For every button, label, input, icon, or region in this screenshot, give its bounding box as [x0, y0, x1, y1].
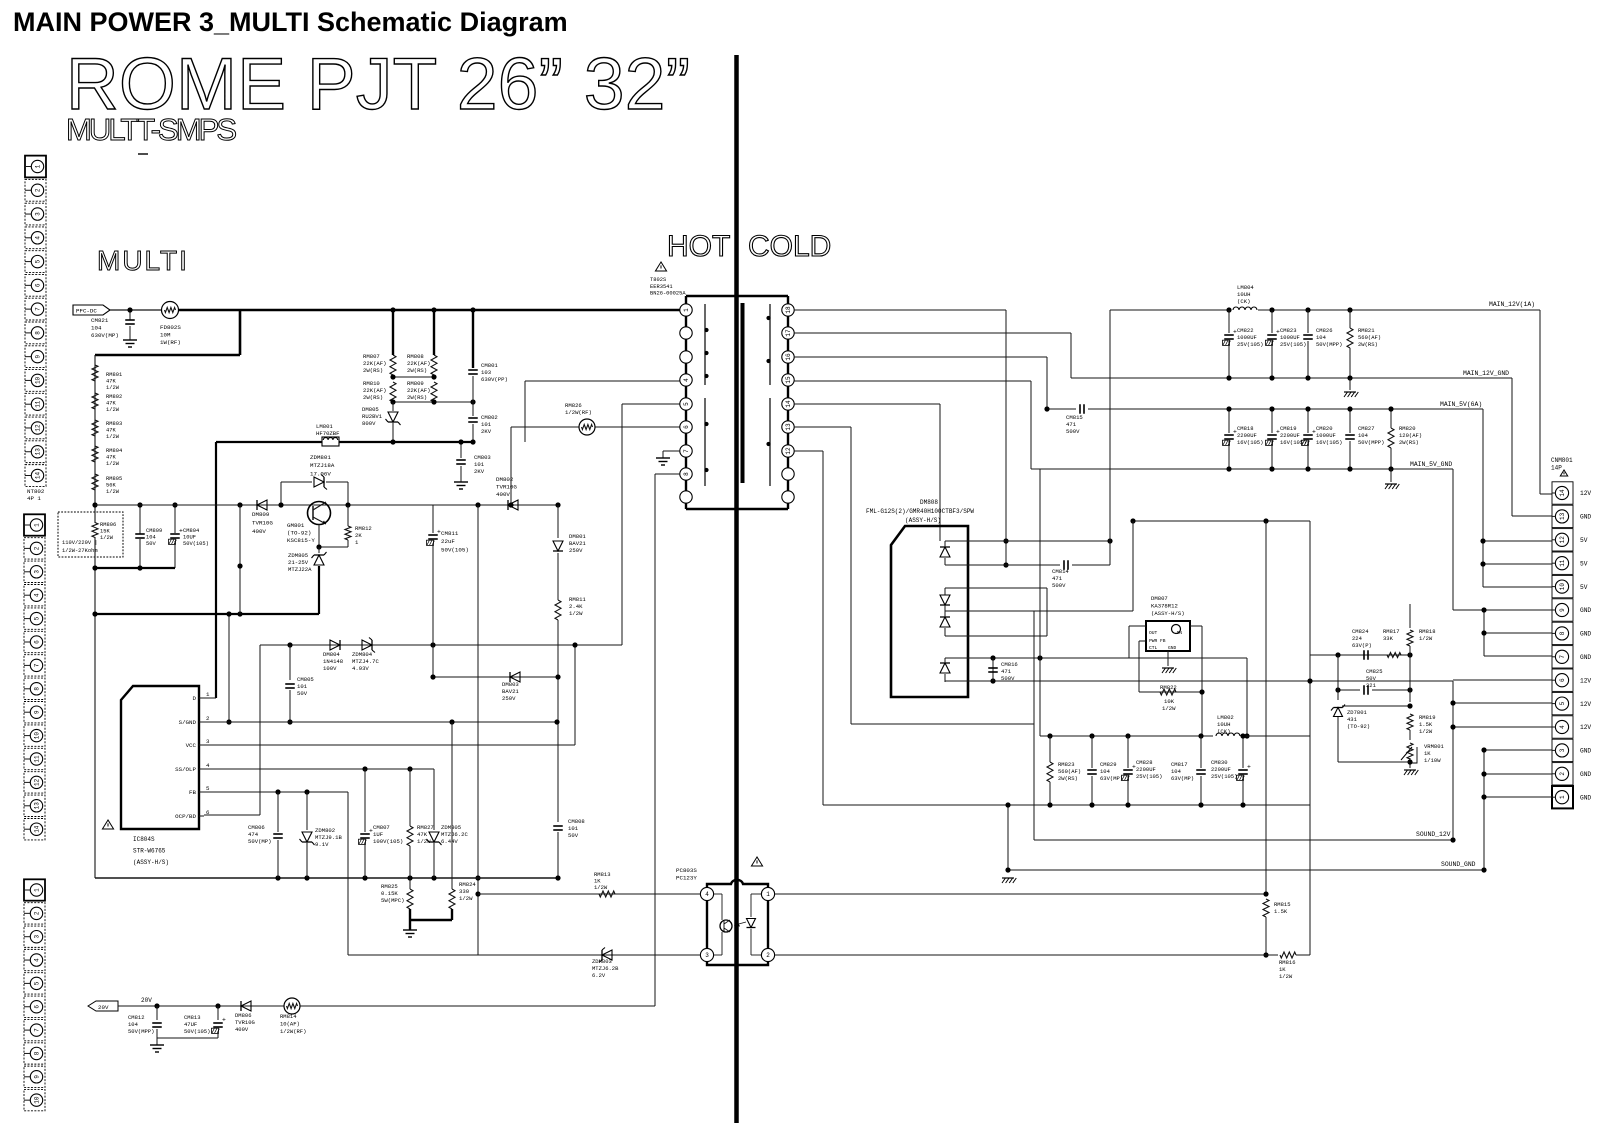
- svg-text:10: 10: [35, 376, 42, 384]
- capacitor CM821: [129, 310, 131, 320]
- capacitor CM808: [553, 825, 563, 827]
- svg-text:101: 101: [297, 683, 308, 690]
- inductor LM804: [1233, 307, 1257, 310]
- svg-text:12: 12: [785, 447, 792, 455]
- svg-text:101: 101: [474, 461, 485, 468]
- svg-text:3: 3: [34, 935, 41, 939]
- svg-text:14: 14: [785, 400, 792, 408]
- DM807 pin stubs: [1129, 625, 1146, 627]
- svg-text:SOUND_12V: SOUND_12V: [1416, 831, 1451, 838]
- ground below CM821: [123, 339, 137, 341]
- DM808 diode 2/3 snubber loop: [945, 587, 1047, 589]
- wire SOUND_GND with ground: [1008, 869, 1484, 871]
- svg-text:1.5K: 1.5K: [1419, 721, 1433, 728]
- svg-text:VCC: VCC: [186, 742, 197, 749]
- svg-text:MAIN POWER 3_MULTI Schematic D: MAIN POWER 3_MULTI Schematic Diagram: [13, 7, 568, 37]
- svg-text:1: 1: [34, 523, 41, 527]
- wire x1266 down to opto: [1265, 521, 1267, 893]
- svg-text:22uF: 22uF: [441, 538, 455, 545]
- connector column B NT802 (14 pins): [24, 514, 45, 535]
- shunt regulator ZD7801: [1334, 708, 1343, 717]
- wire y677 with diode DM803: [433, 676, 558, 678]
- wires to 12V pins 6-4: [1452, 681, 1454, 840]
- svg-text:2200UF: 2200UF: [1237, 432, 1257, 439]
- capacitor CM804: [174, 505, 176, 533]
- svg-text:1/2W: 1/2W: [594, 884, 608, 891]
- svg-text:13: 13: [35, 448, 42, 456]
- svg-text:13: 13: [785, 423, 792, 431]
- svg-text:4: 4: [705, 891, 709, 898]
- wire y614 thick: [95, 613, 319, 615]
- wire x1034 sound 12v source: [1033, 611, 1035, 840]
- zener DM805: [392, 402, 394, 411]
- svg-text:9: 9: [1559, 608, 1566, 612]
- svg-text:20V: 20V: [98, 1004, 109, 1011]
- svg-text:CM809: CM809: [146, 528, 162, 534]
- svg-text:630V(MP): 630V(MP): [91, 332, 119, 339]
- wire FB y792: [204, 791, 348, 793]
- svg-text:DM808: DM808: [920, 499, 938, 506]
- wire x1202 DM807 IN feed: [1201, 626, 1203, 736]
- svg-text:CM821: CM821: [91, 317, 109, 324]
- wire SOUND_12V: [1034, 839, 1453, 841]
- svg-text:4: 4: [206, 762, 210, 769]
- transformer left winding bars: [704, 304, 706, 385]
- svg-text:HOT: HOT: [667, 230, 730, 263]
- svg-text:10UF: 10UF: [183, 535, 196, 541]
- svg-text:17.06V: 17.06V: [310, 470, 331, 477]
- svg-text:MULTI: MULTI: [97, 245, 189, 276]
- wire x1129 DM807 OUT: [1128, 626, 1130, 658]
- zener ZDM805 6.44V: [433, 769, 435, 830]
- fusible resistor RM814: [284, 998, 300, 1014]
- svg-text:2: 2: [35, 188, 42, 192]
- svg-text:2: 2: [34, 546, 41, 550]
- svg-text:10: 10: [34, 732, 41, 740]
- resistor RM802: [92, 393, 98, 409]
- svg-text:104: 104: [1358, 432, 1369, 439]
- svg-text:CM827: CM827: [1358, 425, 1375, 432]
- svg-text:7: 7: [34, 1028, 41, 1032]
- wire y568 thick join: [95, 567, 175, 569]
- wire pin1 right: [775, 893, 1266, 895]
- wire x1247 to LM802 bus: [1246, 658, 1248, 736]
- svg-text:47K: 47K: [106, 428, 116, 434]
- svg-text:56K: 56K: [106, 483, 116, 489]
- svg-text:BAV21: BAV21: [569, 540, 586, 547]
- svg-text:224: 224: [1352, 635, 1363, 642]
- svg-text:RM801: RM801: [106, 372, 122, 378]
- capacitor CM806: [277, 792, 279, 832]
- capacitor CM828: [1127, 736, 1129, 768]
- svg-text:560(AF): 560(AF): [1358, 334, 1381, 341]
- resistor RM812: [347, 505, 349, 526]
- capacitor CM830: [1242, 736, 1244, 768]
- capacitor CM809: [139, 505, 141, 534]
- svg-text:4: 4: [1559, 725, 1566, 729]
- svg-text:1/2W: 1/2W: [459, 895, 473, 902]
- svg-text:CM825: CM825: [1366, 668, 1383, 675]
- long vertical x478: [477, 505, 479, 955]
- svg-text:50V: 50V: [1366, 675, 1377, 682]
- svg-text:50V(MP): 50V(MP): [248, 838, 272, 845]
- svg-text:RM821: RM821: [1358, 327, 1375, 334]
- svg-text:RM823: RM823: [1058, 761, 1075, 768]
- svg-text:1/2W: 1/2W: [106, 385, 120, 391]
- main bus y505: [95, 504, 560, 506]
- svg-text:50V(105): 50V(105): [184, 1028, 210, 1035]
- svg-text:1.5K: 1.5K: [1274, 908, 1288, 915]
- capacitor CM827: [1349, 409, 1351, 433]
- resistor RM805: [92, 474, 98, 490]
- transformer right pins: [782, 304, 794, 316]
- svg-text:431: 431: [1347, 716, 1358, 723]
- svg-text:104: 104: [146, 535, 156, 541]
- svg-text:S/GND: S/GND: [179, 719, 197, 726]
- svg-text:1K: 1K: [1424, 750, 1431, 757]
- svg-text:16V(105): 16V(105): [1237, 439, 1263, 446]
- svg-text:RM816: RM816: [1279, 959, 1296, 966]
- svg-text:GND: GND: [1580, 748, 1591, 755]
- svg-text:50V(105): 50V(105): [441, 546, 469, 553]
- wire x1310 12V rail: [1309, 521, 1311, 955]
- svg-text:630V(PP): 630V(PP): [481, 376, 508, 383]
- svg-text:GND: GND: [1580, 654, 1591, 661]
- svg-text:9: 9: [35, 354, 42, 358]
- svg-text:PC123Y: PC123Y: [676, 875, 697, 882]
- svg-text:6: 6: [35, 283, 42, 287]
- diode DM806: [241, 1001, 251, 1011]
- HOT/COLD divider line: [734, 55, 739, 1123]
- svg-text:1000UF: 1000UF: [1237, 334, 1257, 341]
- wire pin14 down x940: [794, 403, 940, 405]
- svg-text:2W(RS): 2W(RS): [1399, 439, 1419, 446]
- svg-text:ZDM801: ZDM801: [310, 454, 331, 461]
- svg-text:T802S: T802S: [650, 277, 666, 283]
- wire top bus y310: [110, 309, 170, 311]
- svg-text:KSC815-Y: KSC815-Y: [287, 537, 315, 544]
- svg-text:ZDM804: ZDM804: [352, 651, 373, 658]
- svg-text:250V: 250V: [569, 547, 583, 554]
- capacitor CM813: [217, 1006, 219, 1020]
- wire pin16 to 5V: [794, 356, 1047, 358]
- svg-text:10UH: 10UH: [1237, 291, 1250, 298]
- svg-text:CM820: CM820: [1316, 425, 1333, 432]
- svg-text:MTZJ6.2C: MTZJ6.2C: [441, 831, 468, 838]
- diode DM801: [557, 505, 559, 538]
- resistor RM806 with dashed select box: [58, 512, 123, 557]
- svg-text:104: 104: [1171, 768, 1182, 775]
- wire MAIN_5V_GND y469: [1031, 468, 1453, 470]
- svg-text:11: 11: [1559, 559, 1566, 567]
- svg-text:CM819: CM819: [1280, 425, 1297, 432]
- wire x229 to S/GND: [228, 614, 230, 722]
- diode DM804: [330, 640, 340, 650]
- DM808 diode 3: [940, 617, 950, 627]
- svg-text:500V: 500V: [1052, 582, 1066, 589]
- resistor RM824: [451, 722, 453, 889]
- svg-text:8: 8: [1559, 631, 1566, 635]
- svg-text:400V: 400V: [496, 491, 510, 498]
- svg-text:GND: GND: [1168, 645, 1177, 651]
- wire pin15 to 5V gnd: [794, 380, 1031, 382]
- resistor chain RM801-RM805 vertical wire: [94, 355, 96, 505]
- svg-text:DM807: DM807: [1151, 595, 1168, 602]
- connector column A (14 pins): [25, 156, 46, 178]
- svg-text:8: 8: [34, 687, 41, 691]
- capacitor CM801: [468, 369, 478, 371]
- svg-text:6: 6: [683, 425, 690, 429]
- svg-text:RM805: RM805: [106, 476, 122, 482]
- transformer right winding bars: [769, 304, 771, 385]
- svg-text:47K: 47K: [106, 401, 116, 407]
- svg-text:RM827: RM827: [417, 824, 434, 831]
- svg-text:1/2W: 1/2W: [1419, 728, 1433, 735]
- PC803S pins: [700, 887, 713, 900]
- wire stubs from top bus: [392, 310, 394, 355]
- svg-text:47K: 47K: [106, 455, 116, 461]
- svg-text:4: 4: [34, 958, 41, 962]
- svg-text:GND: GND: [1580, 514, 1591, 521]
- wire y645 VCC rail: [260, 644, 622, 646]
- svg-text:10: 10: [34, 1096, 41, 1104]
- svg-text:1/2W: 1/2W: [1279, 973, 1293, 980]
- svg-text:2K: 2K: [355, 532, 362, 539]
- svg-text:471: 471: [1001, 668, 1012, 675]
- svg-text:63V(MP): 63V(MP): [1171, 775, 1194, 782]
- svg-text:(CK): (CK): [1217, 728, 1230, 735]
- svg-text:47UF: 47UF: [184, 1021, 197, 1028]
- svg-text:COLD: COLD: [748, 230, 831, 263]
- svg-text:RM812: RM812: [355, 525, 372, 532]
- svg-text:RM820: RM820: [1399, 425, 1416, 432]
- wire SS/OLP y769: [204, 768, 434, 770]
- svg-text:CTL: CTL: [1149, 645, 1158, 651]
- wire pin13 to x851: [794, 426, 851, 428]
- resistor RM804: [92, 446, 98, 462]
- capacitor CM817: [1200, 736, 1202, 768]
- svg-text:25V(105): 25V(105): [1136, 773, 1162, 780]
- svg-text:12V: 12V: [1580, 677, 1591, 684]
- svg-text:10UH: 10UH: [1217, 721, 1230, 728]
- svg-text:MAIN_12V(1A): MAIN_12V(1A): [1489, 301, 1535, 308]
- svg-text:5: 5: [34, 981, 41, 985]
- wire y706: [1342, 705, 1410, 707]
- svg-text:1: 1: [683, 308, 690, 312]
- DM808 diode 1: [940, 547, 950, 557]
- svg-text:1/2W(RF): 1/2W(RF): [565, 409, 592, 416]
- svg-text:DM805: DM805: [362, 406, 379, 413]
- capacitor CM826: [1307, 310, 1309, 333]
- svg-text:5: 5: [34, 616, 41, 620]
- svg-text:1/2W: 1/2W: [106, 461, 120, 467]
- svg-text:IN: IN: [1176, 630, 1182, 636]
- zener ZDM801 loop: [280, 482, 282, 505]
- capacitor CM819: [1271, 409, 1273, 433]
- capacitor CM803 with ground: [460, 442, 462, 458]
- svg-text:FB: FB: [189, 789, 196, 796]
- svg-text:RM825: RM825: [381, 883, 398, 890]
- svg-text:VRM801: VRM801: [1424, 743, 1445, 750]
- svg-text:2200UF: 2200UF: [1280, 432, 1300, 439]
- svg-text:13: 13: [34, 802, 41, 810]
- transformer T802S warning label: [655, 262, 666, 271]
- svg-text:101: 101: [568, 825, 579, 832]
- capacitor CM811: [432, 505, 434, 533]
- capacitor CM807: [364, 769, 366, 832]
- svg-text:2: 2: [206, 715, 210, 722]
- resistor RM819: [1409, 702, 1411, 712]
- svg-text:103: 103: [481, 369, 491, 376]
- zener ZDM803 wire to pin3: [348, 954, 700, 956]
- svg-text:DM806: DM806: [235, 1012, 252, 1019]
- svg-text:22K(AF): 22K(AF): [363, 387, 387, 394]
- svg-text:DM802: DM802: [496, 476, 514, 483]
- svg-text:CM808: CM808: [568, 818, 585, 825]
- svg-text:(TO-92): (TO-92): [1347, 723, 1370, 730]
- svg-text:47K: 47K: [417, 831, 428, 838]
- svg-text:120(AF): 120(AF): [1399, 432, 1422, 439]
- wire S/GND y722: [204, 721, 557, 723]
- svg-text:14P: 14P: [1551, 465, 1562, 472]
- diode DM802: [508, 500, 518, 510]
- svg-text:500V: 500V: [1066, 428, 1080, 435]
- node PFC-DC flag: [73, 305, 110, 315]
- svg-text:14: 14: [34, 825, 41, 833]
- svg-text:EER3541: EER3541: [650, 284, 673, 290]
- svg-text:CM829: CM829: [1100, 761, 1117, 768]
- svg-text:DM809: DM809: [252, 511, 270, 518]
- ground on 12V gnd: [1349, 378, 1351, 390]
- svg-text:1: 1: [766, 891, 770, 898]
- resistor RM827: [409, 769, 411, 826]
- svg-text:500V: 500V: [1001, 675, 1015, 682]
- capacitor CM823: [1271, 310, 1273, 333]
- svg-text:RM807: RM807: [363, 353, 380, 360]
- resistor RM815: [1263, 899, 1269, 917]
- svg-text:221: 221: [1366, 682, 1377, 689]
- svg-text:ZD7801: ZD7801: [1347, 709, 1368, 716]
- svg-text:MAIN_12V_GND: MAIN_12V_GND: [1463, 370, 1509, 377]
- svg-text:5: 5: [1559, 701, 1566, 705]
- svg-text:2: 2: [34, 911, 41, 915]
- DM808 diode 4 output wires: [945, 657, 1247, 659]
- svg-text:3: 3: [34, 570, 41, 574]
- inductor LM801 wire y442: [216, 441, 473, 443]
- svg-text:63V(P): 63V(P): [1352, 642, 1372, 649]
- svg-text:2200UF: 2200UF: [1211, 766, 1231, 773]
- svg-text:RM817: RM817: [1383, 628, 1400, 635]
- capacitor CM812: [156, 1006, 158, 1020]
- svg-text:6: 6: [34, 640, 41, 644]
- svg-text:RM822: RM822: [1160, 684, 1177, 691]
- svg-text:2KV: 2KV: [481, 428, 492, 435]
- wires to GND pins 3-1: [1483, 750, 1485, 870]
- svg-text:7: 7: [35, 307, 42, 311]
- svg-text:ZDM805: ZDM805: [441, 824, 461, 831]
- svg-text:104: 104: [128, 1021, 139, 1028]
- svg-text:CM815: CM815: [1066, 414, 1083, 421]
- svg-text:800V: 800V: [362, 420, 376, 427]
- svg-text:10: 10: [1559, 583, 1566, 591]
- svg-text:50V: 50V: [568, 832, 579, 839]
- svg-text:MULTT-SMPS: MULTT-SMPS: [66, 112, 238, 147]
- svg-text:3: 3: [35, 212, 42, 216]
- secondary bus y736: [1040, 735, 1213, 737]
- transformer left pins: [680, 304, 692, 316]
- svg-text:BAV21: BAV21: [502, 688, 519, 695]
- PC803S inner LED: [747, 919, 756, 928]
- zener ZDM802: [306, 792, 308, 830]
- svg-text:101: 101: [481, 421, 492, 428]
- DM808 mid junction wire y611: [945, 610, 1133, 612]
- svg-text:SOUND_GND: SOUND_GND: [1441, 861, 1476, 868]
- svg-text:CM812: CM812: [128, 1014, 145, 1021]
- svg-text:ZDM805: ZDM805: [288, 552, 308, 559]
- svg-text:12: 12: [34, 778, 41, 786]
- svg-text:8: 8: [35, 331, 42, 335]
- svg-text:2KV: 2KV: [474, 468, 485, 475]
- resistor RM808: [431, 355, 437, 375]
- svg-text:PC803S: PC803S: [676, 867, 697, 874]
- svg-text:GND: GND: [1580, 771, 1591, 778]
- diode DM809: [257, 500, 267, 510]
- svg-text:1/2W: 1/2W: [100, 535, 114, 541]
- svg-text:10(AF): 10(AF): [280, 1021, 300, 1028]
- svg-text:1/2W: 1/2W: [106, 434, 120, 440]
- zener ZDM805 21-25V: [318, 547, 320, 553]
- svg-text:D: D: [193, 695, 197, 702]
- svg-text:RM804: RM804: [106, 448, 122, 454]
- svg-text:RM806: RM806: [100, 522, 116, 528]
- wires to 5V pins: [1483, 540, 1552, 542]
- svg-text:400V: 400V: [252, 528, 266, 535]
- DM808 diode 2: [940, 595, 950, 605]
- wire VCC x575: [574, 645, 576, 745]
- wire pin5 to VCC rectifier: [622, 403, 686, 405]
- bottom bus y878: [95, 877, 560, 879]
- wire y565 with capacitor CM814: [945, 564, 1060, 566]
- svg-text:11: 11: [35, 400, 42, 408]
- svg-text:KA378R12: KA378R12: [1151, 603, 1178, 610]
- svg-text:1K: 1K: [1279, 966, 1286, 973]
- svg-text:GND: GND: [1580, 607, 1591, 614]
- potentiometer VRM801: [1407, 743, 1413, 759]
- svg-text:4: 4: [34, 593, 41, 597]
- junction dots on bus y505: [237, 502, 242, 507]
- svg-text:2W(RS): 2W(RS): [363, 367, 383, 374]
- svg-text:4P 1: 4P 1: [27, 495, 41, 502]
- connector CNM801 body: [1552, 482, 1573, 504]
- svg-text:CM806: CM806: [248, 824, 265, 831]
- svg-text:2W(RS): 2W(RS): [1358, 341, 1378, 348]
- wire MAIN_12V_GND y378: [1071, 377, 1512, 379]
- wire OCP/BD y815: [204, 814, 260, 816]
- svg-text:RM826: RM826: [565, 402, 582, 409]
- regulator DM807 KA378R12: [1146, 621, 1190, 651]
- svg-text:CM823: CM823: [1280, 327, 1297, 334]
- svg-text:3: 3: [206, 738, 210, 745]
- svg-text:25V(105): 25V(105): [1280, 341, 1306, 348]
- IC804S controller box: [121, 686, 199, 829]
- svg-text:5V: 5V: [1580, 584, 1588, 591]
- wires to GND pins 9-7: [1453, 609, 1552, 611]
- ground at transformer pin7: [663, 450, 680, 452]
- svg-text:104: 104: [91, 325, 102, 332]
- svg-text:CM826: CM826: [1316, 327, 1333, 334]
- svg-text:16: 16: [785, 353, 792, 361]
- transformer T802S core line: [741, 303, 745, 483]
